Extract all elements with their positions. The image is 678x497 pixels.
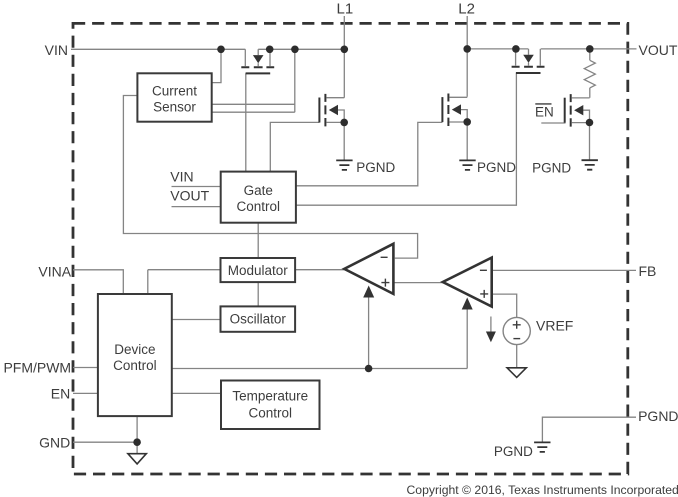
svg-text:Modulator: Modulator xyxy=(228,263,289,278)
svg-text:PGND: PGND xyxy=(494,444,533,459)
svg-text:EN: EN xyxy=(51,386,70,402)
svg-text:Control: Control xyxy=(113,358,157,373)
svg-text:VIN: VIN xyxy=(45,42,68,58)
svg-text:EN: EN xyxy=(535,104,554,119)
svg-text:PGND: PGND xyxy=(477,160,516,175)
svg-text:VIN: VIN xyxy=(170,168,193,184)
svg-text:L1: L1 xyxy=(337,0,354,17)
svg-text:Oscillator: Oscillator xyxy=(230,311,287,326)
svg-text:Gate: Gate xyxy=(244,183,273,198)
svg-text:VOUT: VOUT xyxy=(170,188,209,204)
svg-text:L2: L2 xyxy=(458,0,475,17)
svg-text:PFM/PWM: PFM/PWM xyxy=(3,360,71,376)
svg-text:PGND: PGND xyxy=(356,160,395,175)
svg-text:VREF: VREF xyxy=(536,318,573,334)
svg-text:PGND: PGND xyxy=(532,161,571,176)
svg-text:VINA: VINA xyxy=(38,264,71,280)
svg-text:PGND: PGND xyxy=(638,408,678,424)
svg-text:Temperature: Temperature xyxy=(232,389,308,404)
svg-text:Control: Control xyxy=(249,406,293,421)
svg-text:FB: FB xyxy=(639,263,657,279)
svg-text:Current: Current xyxy=(152,84,197,99)
svg-text:Copyright © 2016, Texas Instru: Copyright © 2016, Texas Instruments Inco… xyxy=(407,483,678,497)
svg-text:VOUT: VOUT xyxy=(639,42,678,58)
svg-text:Device: Device xyxy=(114,342,155,357)
svg-text:GND: GND xyxy=(39,434,70,450)
svg-text:Control: Control xyxy=(237,199,281,214)
svg-text:Sensor: Sensor xyxy=(153,100,196,115)
